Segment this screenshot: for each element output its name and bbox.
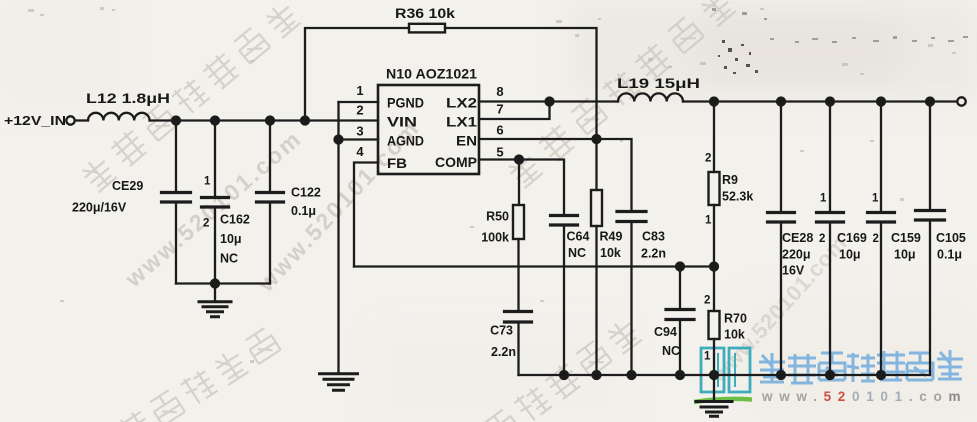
svg-text:COMP: COMP [435,154,477,170]
node C83 bottom [628,371,636,379]
wire R50 to C73 [517,239,519,312]
wire pin8 LX2 stub [479,100,550,102]
node C169 top [826,98,834,106]
logo green underline [694,399,752,402]
svg-text:1: 1 [356,83,363,98]
wire ground bus bottom [519,374,931,376]
capacitor C94 [679,267,681,376]
node COMP junction [515,156,523,164]
wire FB feedback line [354,265,714,267]
logo block bottom-right [694,43,967,404]
svg-text:R9: R9 [722,173,738,187]
op-amp U1 IC N10 AOZ1021 box [378,85,479,174]
svg-text:10k: 10k [724,328,745,342]
logo hanzi blue characters [759,350,963,383]
watermark hanzi line bottom-left [115,326,281,422]
svg-text:LX1: LX1 [446,114,477,130]
node C159 top [877,98,885,106]
svg-text:CE28: CE28 [782,231,813,245]
wire input caps bottom bus [176,282,270,284]
ground G3 [696,402,732,417]
node CE29 top [172,117,180,125]
wire output rail [683,100,957,102]
svg-text:C159: C159 [891,231,921,245]
svg-text:C73: C73 [490,324,513,338]
svg-text:5: 5 [496,145,503,160]
node LX junction [546,98,554,106]
svg-text:AGND: AGND [387,133,424,149]
svg-text:C94: C94 [654,325,677,339]
svg-text:2: 2 [705,153,711,165]
node R70 bottom ground [710,371,718,379]
watermark hanzi line bottom-center [483,316,643,422]
wire terminal to L12 [75,119,88,121]
wire EN to R49 [595,139,597,190]
svg-text:220μ/16V: 220μ/16V [72,201,127,215]
svg-text:PGND: PGND [387,95,424,111]
svg-text:100k: 100k [481,231,509,245]
wire main +12V rail to VIN pin2 [150,119,378,121]
wire R70 bottom lead [713,339,715,375]
wire pin1 PGND stub [339,101,379,103]
wire pin3 AGND stub [339,138,379,140]
capacitor C64 [563,225,565,375]
svg-text:6: 6 [496,123,503,138]
inductor L19 [618,93,683,101]
svg-text:4: 4 [356,144,364,159]
svg-text:R50: R50 [486,210,509,224]
node AGND junction [335,136,343,144]
svg-text:10μ: 10μ [220,232,242,246]
svg-text:NC: NC [220,252,238,266]
resistor R36 [409,24,445,33]
node CE28 top [777,98,785,106]
svg-text:R70: R70 [724,312,747,326]
wire R36 left leg [305,28,409,121]
svg-text:52.3k: 52.3k [722,190,753,204]
ground G1 below C162 [214,284,216,301]
svg-text:www.520101.com: www.520101.com [761,389,967,404]
wire R9 bottom lead [713,205,715,267]
capacitor CE28 [780,102,782,376]
node C122 top [266,117,274,125]
svg-text:C64: C64 [567,230,590,244]
watermark layer [79,0,852,422]
ground G3 stem [713,375,715,400]
svg-text:10k: 10k [600,246,621,260]
svg-text:C105: C105 [936,231,966,245]
wire pin6 EN stub [479,138,597,140]
svg-text:2: 2 [356,103,363,118]
svg-text:2: 2 [704,295,710,307]
wire LX to L19 [550,100,619,102]
wire R49 bottom lead [595,226,597,375]
node C105 top [926,98,934,106]
svg-text:NC: NC [662,344,680,358]
capacitor C159 [880,102,882,376]
svg-text:1: 1 [872,193,879,205]
logo book icon [701,348,750,392]
wire R70 top lead [713,267,715,312]
output terminal [957,97,965,105]
node C159 bottom [877,371,885,379]
svg-text:1: 1 [704,351,711,363]
node FB divider junction [710,263,718,271]
svg-text:FB: FB [387,155,407,171]
node C94 bottom [676,371,684,379]
svg-text:VIN: VIN [387,114,417,130]
watermark hanzi line top-left [79,0,301,193]
svg-text:NC: NC [568,246,586,260]
svg-text:1: 1 [204,176,211,188]
capacitor C73 [517,322,519,375]
resistor R70 [709,311,720,339]
svg-text:16V: 16V [782,264,805,278]
svg-text:L19 15μH: L19 15μH [617,76,700,91]
capacitor C122 [269,121,271,284]
svg-text:C169: C169 [837,231,867,245]
wire R36 right leg [445,28,597,139]
input terminal +12V_IN [66,116,74,124]
node C162 top [211,117,219,125]
svg-text:LX2: LX2 [446,95,477,111]
svg-text:C122: C122 [291,186,321,200]
wire pin7 LX1 stub [479,102,550,120]
wire R9 top lead [713,102,715,173]
capacitor C83 [630,222,632,376]
node C169 bottom [826,371,834,379]
node R9 output tap [710,98,718,106]
scan speckles (decorative) [718,40,758,74]
svg-text:1: 1 [820,193,827,205]
resistor R49 [591,190,602,226]
svg-text:2.2n: 2.2n [491,345,516,359]
svg-text:10μ: 10μ [894,248,916,262]
svg-text:2: 2 [203,218,209,230]
svg-text:10μ: 10μ [839,248,861,262]
svg-text:8: 8 [496,84,503,99]
node C64 bottom [560,371,568,379]
capacitor C162 [214,121,216,284]
svg-text:L12 1.8μH: L12 1.8μH [86,91,170,106]
svg-text:1: 1 [705,215,712,227]
svg-text:R49: R49 [600,230,623,244]
wire pin5 COMP stub [479,158,519,160]
wire EN to C83 branch [597,139,632,212]
wire COMP to C64 branch [519,160,564,216]
svg-text:C83: C83 [642,230,665,244]
svg-text:0.1μ: 0.1μ [291,204,316,218]
node EN junction [593,135,601,143]
svg-text:2.2n: 2.2n [641,247,666,261]
svg-text:0.1μ: 0.1μ [937,248,962,262]
svg-text:7: 7 [496,102,503,117]
capacitor CE29 [175,121,177,284]
capacitor C105 [929,102,931,376]
svg-text:R36 10k: R36 10k [395,6,456,21]
svg-text:220μ: 220μ [782,248,811,262]
capacitor C169 [829,102,831,376]
svg-text:2: 2 [819,233,825,245]
node caps bottom junction [211,280,219,288]
wire COMP to R50 [518,160,520,206]
svg-text:CE29: CE29 [112,179,143,193]
ground G2 AGND [320,374,358,391]
svg-text:2: 2 [873,233,879,245]
wire pin4 FB stub [354,163,378,267]
node CE28 bottom [777,371,785,379]
resistor R50 [513,205,524,239]
resistor R9 [709,172,720,205]
node C94 top junction [676,263,684,271]
wire PGND-AGND vertical to ground [337,102,339,373]
svg-text:C162: C162 [220,213,250,227]
svg-text:N10 AOZ1021: N10 AOZ1021 [386,66,477,82]
inductor L12 [88,113,150,121]
node R36 tap [301,117,309,125]
node R49 bottom [593,371,601,379]
svg-text:EN: EN [456,133,477,149]
watermark hanzi fragment top-right [712,43,749,80]
svg-text:3: 3 [356,124,363,139]
watermark hanzi line center-right [505,0,737,189]
svg-text:+12V_IN: +12V_IN [4,113,66,128]
